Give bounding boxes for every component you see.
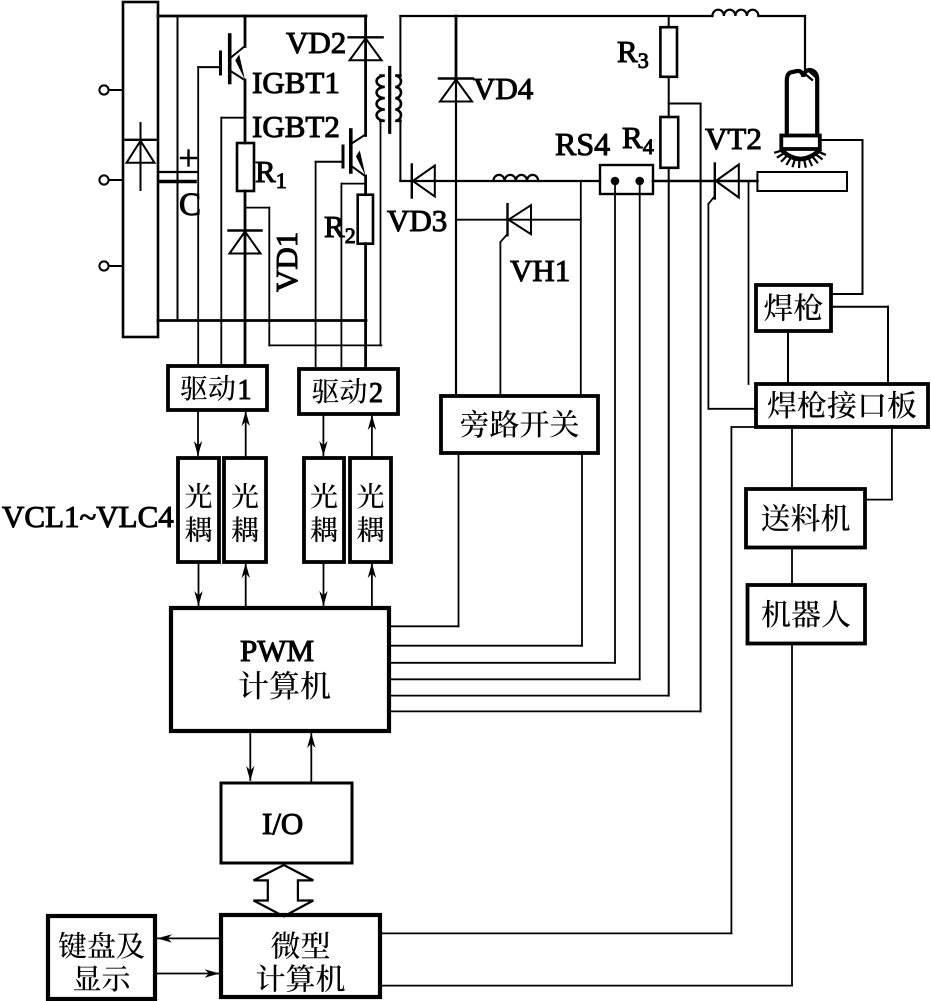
optocoupler box 光耦 2 — [224, 458, 266, 562]
svg-text:VD1: VD1 — [269, 232, 304, 292]
resistor R3 — [668, 16, 670, 27]
wire — [109, 265, 123, 267]
torch box 焊枪 — [756, 285, 831, 331]
RS4 sense wires down to PWM — [614, 185, 616, 663]
arrow keyboard to computer — [155, 973, 218, 975]
wire main line tap to interface board — [748, 181, 750, 384]
driver box 驱动1 — [168, 366, 267, 410]
wire VD2 to IGBT2 collector — [364, 37, 367, 135]
transformer primary bottom lead wire — [380, 121, 382, 346]
arrow 驱动1 to 光耦1 — [197, 410, 199, 455]
AC input terminal 3 — [99, 261, 108, 270]
svg-text:IGBT1: IGBT1 — [252, 65, 340, 100]
transformer secondary bottom lead wire — [399, 121, 401, 181]
shunt RS4 box — [600, 165, 653, 194]
svg-text:VD4: VD4 — [473, 71, 534, 106]
svg-text:2: 2 — [369, 378, 383, 409]
emitter rail jog wire — [269, 344, 381, 346]
R3/R4 junction wire to VT2 branch — [669, 103, 701, 105]
wire interface board to microcomputer — [731, 426, 756, 428]
main output wire — [400, 180, 600, 182]
diode VD2 — [349, 36, 383, 38]
R2 bottom wire to driver2 — [364, 244, 367, 369]
svg-text:VCL1~VLC4: VCL1~VLC4 — [2, 499, 174, 534]
VD1 anode wire to DC- bus and driver1 — [244, 231, 247, 367]
svg-text:VT2: VT2 — [705, 121, 762, 156]
IGBT1 emitter sense tap wire — [221, 117, 245, 119]
optocoupler box 光耦 1 — [178, 458, 219, 562]
svg-text:VD2: VD2 — [286, 25, 346, 60]
DC+ bus wire — [158, 15, 366, 18]
diode VD1 — [229, 229, 262, 231]
arrow 光耦4 to 驱动2 — [371, 415, 373, 458]
svg-text:IGBT2: IGBT2 — [252, 109, 340, 144]
wire VT2 gate to interface board — [708, 408, 756, 410]
arrow PWM to I/O — [249, 731, 251, 780]
transformer secondary top lead wire — [399, 16, 401, 76]
resistor R1 — [237, 143, 254, 191]
torch interface board box 焊枪接口板 — [756, 384, 928, 427]
IGBT1 gate drive wire — [197, 67, 199, 366]
VH1 gate wire — [500, 234, 507, 242]
VT2 gate wire — [708, 196, 714, 204]
wire torch bottom to interface board — [787, 331, 789, 384]
AC input terminal 2 — [99, 175, 108, 184]
bypass switch box 旁路开关 — [441, 396, 598, 453]
I/O box — [221, 783, 352, 863]
workpiece bar — [757, 172, 847, 191]
PWM computer box — [171, 608, 389, 731]
transformer primary winding — [377, 76, 385, 121]
bypass switch output wires to PWM — [458, 453, 460, 626]
diode VH1 — [506, 204, 508, 235]
wire robot to microcomputer — [791, 644, 793, 986]
thyristor VT2 — [714, 164, 716, 199]
top smoothing inductor — [712, 10, 758, 16]
arrow 光耦3 to PWM — [323, 562, 325, 605]
IGBT1 collector wire from DC+ bus — [244, 16, 247, 47]
capacitor C plates — [159, 171, 197, 173]
rectifier diode symbol — [140, 123, 142, 190]
wire interface board to wire feeder — [791, 427, 793, 489]
node tap wire to driver jog — [245, 207, 269, 209]
svg-text:RS4: RS4 — [555, 126, 610, 162]
transistor IGBT2 — [349, 130, 353, 172]
capacitor C top lead wire — [177, 16, 179, 321]
svg-text:VH1: VH1 — [510, 253, 570, 288]
wire R1 to VD1 — [244, 191, 247, 231]
wire feeder box 送料机 — [746, 489, 865, 548]
AC input terminal 1 — [99, 85, 108, 94]
IGBT2 gate drive wire — [315, 162, 317, 369]
keyboard/display box 键盘及显示 — [48, 916, 155, 999]
freewheel line wire — [456, 219, 581, 221]
R4 bottom sense wire down to PWM — [668, 168, 670, 696]
wire torch to interface: right loop — [831, 306, 888, 308]
IGBT2 emitter wire — [364, 176, 367, 195]
feedback wires to PWM — [389, 662, 615, 664]
diode VD3 — [411, 165, 413, 198]
resistor R2 — [358, 195, 373, 244]
VD4 anode wire down to bypass switch — [455, 79, 457, 395]
arrow PWM to 光耦2 — [245, 564, 247, 608]
arrow 光耦1 to PWM — [198, 562, 200, 605]
transformer secondary winding — [395, 76, 401, 121]
arrow computer to keyboard — [158, 937, 221, 939]
arrow 驱动2 to 光耦3 — [322, 414, 324, 455]
microcomputer box 微型计算机 — [221, 915, 380, 997]
wire — [109, 179, 123, 181]
capacitor C plus sign — [181, 157, 196, 159]
VH1 cathode wire from main line — [580, 181, 582, 394]
svg-text:PWM: PWM — [240, 633, 314, 668]
transistor IGBT1 — [228, 35, 232, 83]
output inductor — [493, 175, 538, 181]
svg-text:1: 1 — [238, 375, 252, 406]
svg-text:VD3: VD3 — [387, 203, 447, 238]
arrow PWM to 光耦4 — [371, 564, 373, 608]
RS4 sense dots — [611, 177, 620, 186]
arrow 光耦2 to 驱动1 — [245, 412, 247, 458]
resistor R4 — [660, 117, 678, 168]
robot box 机器人 — [748, 585, 866, 644]
IGBT2 emitter sense tap wire — [341, 183, 365, 185]
wire R3 to R4 — [668, 77, 670, 117]
welding electrode — [787, 70, 817, 135]
optocoupler box 光耦 4 — [350, 458, 391, 562]
driver box 驱动2 — [299, 369, 398, 414]
IGBT1 emitter wire — [244, 80, 247, 143]
hollow double arrow I/O to computer — [254, 865, 314, 916]
output top bus wire — [400, 15, 712, 17]
electrode return wire — [819, 139, 863, 141]
wire DC+ bus to VD2 — [364, 16, 367, 37]
diode VD4 — [455, 16, 458, 79]
optocoupler box 光耦 3 — [304, 458, 344, 562]
wire inductor to electrode — [759, 15, 806, 17]
arrow I/O to PWM — [310, 734, 312, 783]
rectifier bridge block — [123, 2, 158, 337]
wire feeder to robot — [791, 548, 793, 586]
wire interface board to wire feeder right — [891, 427, 893, 500]
DC- bus wire — [158, 319, 366, 322]
svg-text:I/O: I/O — [262, 806, 303, 841]
main output wire RS4 to workpiece — [653, 180, 757, 183]
transformer core bar — [388, 68, 391, 133]
wire — [109, 89, 123, 91]
